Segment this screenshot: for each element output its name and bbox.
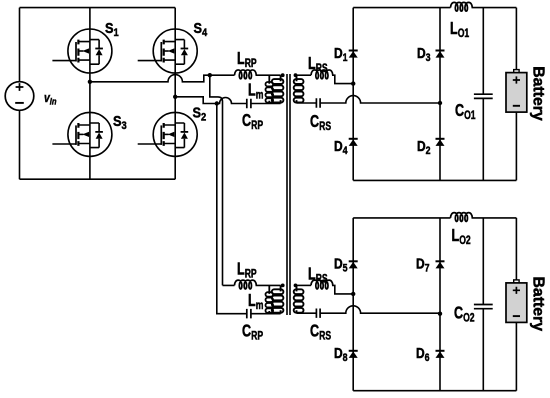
svg-text:Battery: Battery bbox=[530, 66, 547, 121]
svg-text:Battery: Battery bbox=[530, 277, 547, 332]
